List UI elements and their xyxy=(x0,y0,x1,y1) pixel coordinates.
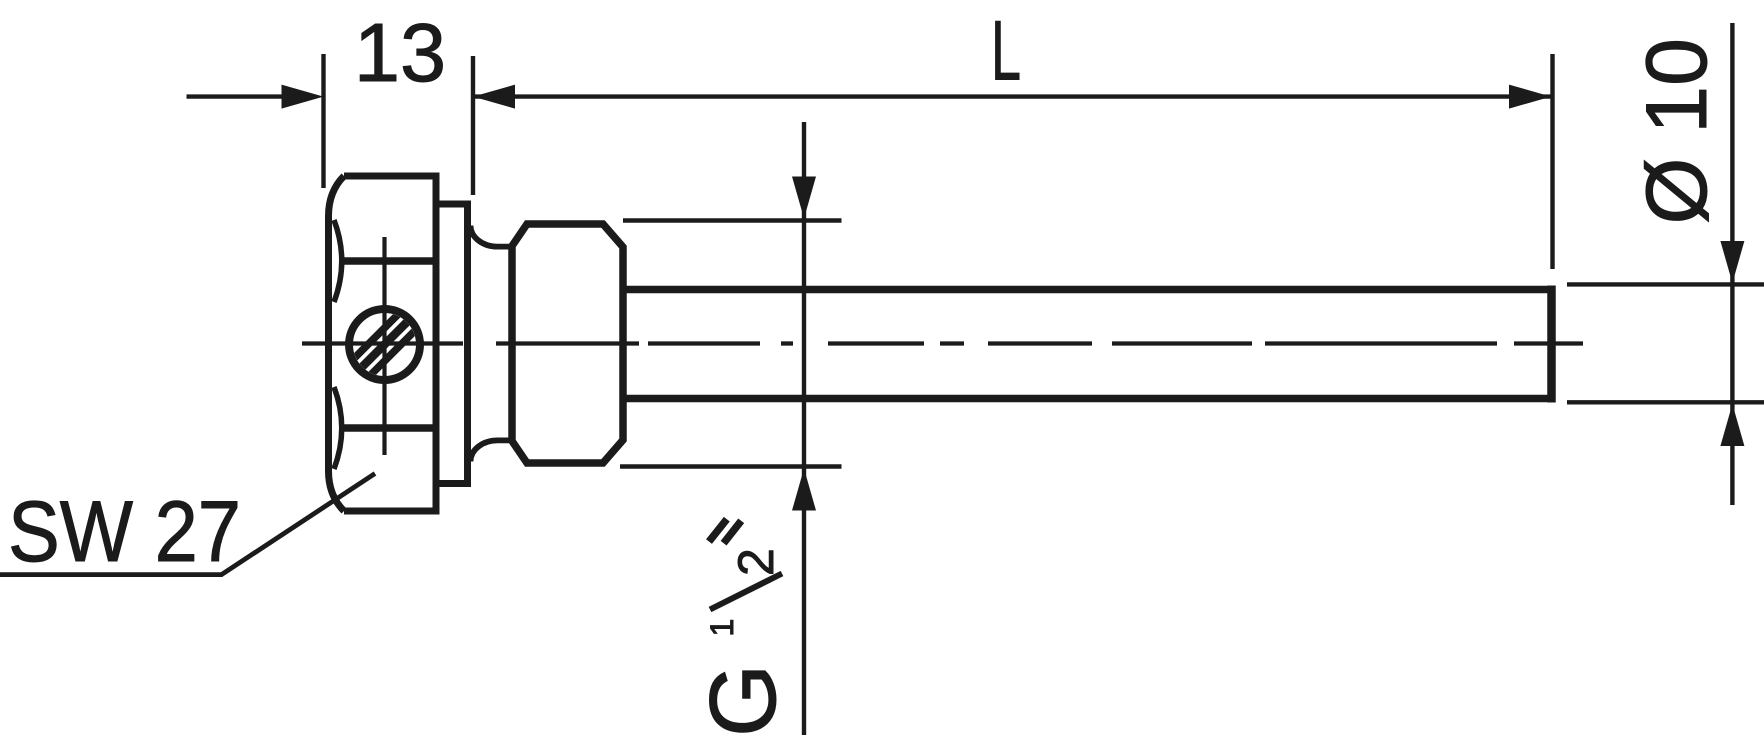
svg-text:Ø 10: Ø 10 xyxy=(1629,38,1725,224)
dimension G1/2: extension lines xyxy=(620,221,842,467)
dimension Ø10: vertical line xyxy=(1730,23,1734,505)
label G 1/2": double prime ticks xyxy=(709,519,727,541)
svg-text:1: 1 xyxy=(704,619,740,637)
label G 1/2": fraction slash xyxy=(710,574,782,610)
screw slot hatch xyxy=(344,304,425,385)
dimension L: right extension line xyxy=(1550,54,1554,269)
dimension L: line xyxy=(473,94,1551,98)
svg-text:SW 27: SW 27 xyxy=(8,484,241,580)
hex facet lines xyxy=(339,261,436,428)
hex chamfer arcs at facet ends xyxy=(334,220,342,469)
centerline (horizontal dash-dot axis) xyxy=(302,341,1583,345)
dimension 13: extension lines xyxy=(187,54,474,195)
leader line SW 27 xyxy=(0,474,375,575)
tube end cap xyxy=(1547,286,1556,403)
dimension L: left arrow xyxy=(473,85,515,109)
dimension G1/2: top arrow xyxy=(792,177,816,219)
svg-text:L: L xyxy=(991,4,1021,98)
dimension G1/2: bottom arrow xyxy=(792,469,816,511)
screw slot circle xyxy=(349,309,420,380)
svg-text:2: 2 xyxy=(728,548,784,576)
threaded boss G1/2 xyxy=(512,224,623,463)
screw circle vertical centerline xyxy=(382,237,386,455)
neck fillet top xyxy=(470,226,514,247)
svg-text:13: 13 xyxy=(354,6,446,99)
hex head outline xyxy=(329,173,437,515)
collar xyxy=(433,204,471,484)
dimension Ø10: top arrow xyxy=(1720,241,1744,283)
dimension Ø10: extension lines xyxy=(1567,284,1764,402)
svg-text:G: G xyxy=(690,664,795,735)
neck fillet bottom xyxy=(470,440,514,461)
dimension L: right arrow xyxy=(1509,85,1551,109)
tube Ø10 xyxy=(623,290,1548,399)
dimension Ø10: bottom arrow xyxy=(1720,404,1744,446)
dimension 13: arrow xyxy=(282,85,324,109)
dimension G1/2: vertical line xyxy=(802,122,806,735)
